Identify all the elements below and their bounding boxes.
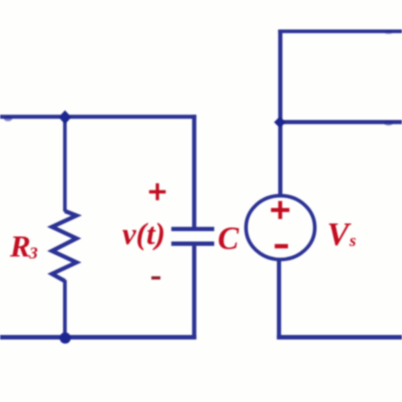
svg-text:v(t): v(t)	[122, 216, 165, 251]
wire bottom-left rail	[0, 335, 196, 340]
svg-text:C: C	[218, 221, 240, 257]
label + (capacitor)	[149, 183, 166, 200]
wire mid-right rail	[278, 120, 402, 124]
wire resistor bottom lead	[63, 280, 67, 338]
node junction bottom of R3	[60, 332, 71, 343]
voltage source Vs circle	[246, 196, 315, 260]
node faint right mid	[384, 121, 393, 126]
wire resistor top lead	[63, 115, 67, 212]
label - (source)	[275, 244, 288, 248]
capacitor C bottom plate	[171, 242, 214, 246]
capacitor C top plate	[171, 227, 214, 231]
node faint left edge	[4, 116, 12, 121]
wire top-right rail	[278, 29, 402, 33]
wire capacitor branch lower	[192, 246, 196, 340]
node faint right top	[385, 31, 393, 35]
label - (capacitor)	[151, 276, 160, 279]
wire top-left rail	[0, 115, 196, 119]
resistor R3	[52, 211, 77, 281]
node junction top of R3	[59, 110, 72, 124]
wire capacitor branch upper	[192, 115, 196, 227]
wire source bottom lead	[277, 259, 281, 339]
svg-text:R3: R3	[9, 229, 38, 264]
svg-text:Vs: Vs	[327, 217, 357, 253]
wire right vertical	[278, 30, 282, 197]
node junction mid-right	[274, 116, 286, 128]
wire bottom-right rail	[277, 335, 402, 340]
label + (source)	[271, 201, 289, 219]
